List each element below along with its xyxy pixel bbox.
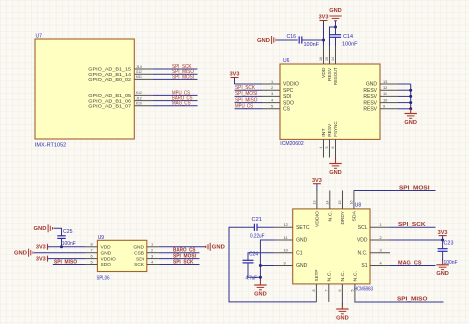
svg-text:SCK: SCK — [134, 262, 145, 268]
pin 1 of U8 right — [370, 226, 390, 228]
baro U9 body — [97, 240, 146, 271]
svg-text:6: 6 — [331, 147, 335, 149]
svg-text:SETC: SETC — [296, 225, 310, 231]
wire U8 SCL to SPI_SCK — [390, 226, 436, 228]
junction C23/VDD/3V3 — [441, 239, 444, 242]
svg-text:3: 3 — [380, 248, 382, 253]
svg-text:RESV: RESV — [363, 88, 377, 94]
wire U8 GND pin9 — [260, 265, 274, 267]
svg-text:RESV: RESV — [363, 94, 377, 100]
svg-text:GND: GND — [336, 315, 349, 321]
pin 4 of U6 — [262, 102, 280, 104]
capacitor C21 — [253, 224, 255, 231]
svg-text:2: 2 — [380, 235, 382, 240]
svg-text:1: 1 — [380, 222, 382, 227]
wire row 4 left of U6 — [235, 102, 263, 104]
ground GND below U8 pin6 — [341, 302, 343, 305]
svg-text:SPI_SCK: SPI_SCK — [398, 222, 426, 228]
wire U8 VDD to 3V3/C23 — [390, 239, 443, 241]
svg-text:C16: C16 — [287, 34, 297, 40]
pin 12 of U8 left — [275, 226, 293, 228]
pin 3 of U8 right — [370, 252, 390, 254]
pin 5 RESV bottom of U6 — [329, 139, 331, 157]
wire net SPI_MISO from U7 — [152, 73, 197, 75]
wire net MAG_CS from U7 — [152, 105, 197, 107]
wire U8 S1 to MAG_CS — [390, 265, 436, 267]
svg-text:100nF: 100nF — [62, 241, 76, 247]
ground GND below C24 bus — [259, 281, 261, 285]
wire GND stem down — [335, 21, 337, 27]
svg-text:6: 6 — [91, 253, 93, 258]
svg-text:GND: GND — [296, 263, 308, 269]
svg-text:DRDY: DRDY — [340, 210, 345, 224]
wire row 3 left of U6 — [235, 95, 263, 97]
ground GND below RESV bus — [410, 109, 412, 114]
wire 3V3 to U9 VDD — [48, 246, 86, 248]
svg-text:3: 3 — [271, 91, 273, 96]
svg-text:3V3: 3V3 — [230, 72, 240, 78]
wire C16 to 3V3/VDD line — [302, 39, 324, 41]
svg-text:3V3: 3V3 — [36, 245, 46, 251]
svg-text:SPI_MISO: SPI_MISO — [397, 297, 428, 303]
pin 5 of U6 — [262, 108, 280, 110]
junction dots RESV bus — [409, 89, 412, 92]
wire 3V3 to VDD pin16 — [323, 21, 325, 47]
svg-text:MAG_CS: MAG_CS — [398, 260, 422, 266]
pin 2 of U8 right — [370, 239, 390, 241]
junction RESV/C14/GND — [334, 26, 337, 29]
wire net BARO_CS from U7 — [152, 100, 197, 102]
wire C14 to REGOUT pin14 — [335, 37, 337, 46]
svg-text:1: 1 — [151, 242, 153, 247]
svg-text:5: 5 — [350, 290, 354, 292]
wire U8 pin5 to SPI_MISO — [355, 301, 444, 303]
wire VDD node to C23 — [442, 240, 444, 249]
svg-text:GND: GND — [254, 291, 267, 297]
svg-text:ICM20602: ICM20602 — [280, 141, 304, 147]
pin 6 of U9 left — [85, 258, 97, 260]
svg-text:5: 5 — [325, 147, 329, 149]
svg-text:GND: GND — [366, 82, 378, 88]
pin 10 of U6 right — [380, 102, 398, 104]
svg-text:11: 11 — [383, 91, 387, 96]
svg-text:12: 12 — [284, 222, 288, 227]
pin 4 of U8 right — [370, 265, 390, 267]
svg-text:GND: GND — [329, 8, 342, 14]
svg-text:RESV: RESV — [363, 107, 377, 113]
gnd port GND at U9 pin7 — [32, 252, 34, 254]
power port 3V3 at U9 VDD — [47, 244, 49, 250]
svg-text:GND: GND — [436, 271, 449, 277]
svg-text:12: 12 — [383, 85, 387, 90]
svg-text:VDD: VDD — [321, 67, 326, 78]
svg-text:C24: C24 — [249, 251, 258, 257]
pin 9 of U8 left — [275, 265, 293, 267]
wire 3V3 to VDDIO — [234, 78, 236, 85]
wire net MPU_CS from U7 — [152, 94, 197, 96]
svg-text:SPI_MOSI: SPI_MOSI — [399, 185, 430, 191]
junction C16 wire to VDD line — [322, 39, 325, 42]
svg-text:2: 2 — [271, 85, 273, 90]
svg-text:GPIO_AD_B1_06: GPIO_AD_B1_06 — [88, 98, 131, 104]
svg-text:SPI_MOSI: SPI_MOSI — [172, 74, 194, 80]
svg-text:IMX-RT1052: IMX-RT1052 — [35, 143, 67, 149]
wire row pin 13 right of U6 — [398, 83, 411, 85]
ground GND below FSYNC — [335, 158, 337, 164]
junction C24 to GND bus — [259, 276, 262, 279]
pin 4 INT of U6 — [323, 139, 325, 157]
pin 14 N.C. of U8 top — [329, 191, 331, 209]
svg-text:SPI_SCK: SPI_SCK — [235, 85, 255, 91]
svg-text:GPIO_AD_B1_05: GPIO_AD_B1_05 — [88, 93, 131, 99]
wire U9 SDI — [159, 258, 200, 260]
wire U8 GND pin11 down — [260, 240, 274, 281]
pin 16 SDA of U8 top — [353, 191, 355, 209]
svg-text:11: 11 — [284, 235, 288, 240]
imu U6 body — [280, 64, 380, 139]
pin 3 of U9 right — [147, 258, 159, 260]
svg-text:RESV: RESV — [327, 67, 332, 81]
power port 3V3 at U9 VDDIO — [47, 256, 49, 262]
svg-text:15: 15 — [325, 57, 329, 61]
svg-text:1: 1 — [271, 79, 273, 84]
wire C21 to SETC — [257, 226, 275, 228]
pin 8 SETP of U8 bottom — [315, 284, 317, 302]
pin 1 of U6 — [262, 83, 280, 85]
svg-text:U6: U6 — [283, 58, 290, 64]
svg-text:N.C.: N.C. — [340, 271, 345, 282]
svg-text:C23: C23 — [444, 241, 454, 247]
svg-text:N.C.: N.C. — [326, 271, 331, 282]
pin 7 of U9 left — [85, 252, 97, 254]
svg-text:4: 4 — [319, 147, 323, 149]
svg-text:3V3: 3V3 — [438, 230, 448, 236]
svg-text:U9: U9 — [98, 235, 105, 241]
svg-text:GPIO_AD_B1_14: GPIO_AD_B1_14 — [88, 72, 131, 78]
wire 3V3 bar to VDD wire — [442, 236, 444, 240]
wire C25 to VDD wire — [61, 238, 63, 246]
svg-text:16: 16 — [349, 201, 353, 205]
junction GND pin9 — [259, 264, 262, 267]
svg-text:9: 9 — [383, 104, 385, 109]
pin 5 N.C. of U8 bottom — [354, 284, 356, 302]
svg-text:GND: GND — [296, 238, 308, 244]
pin 12 of U6 right — [380, 89, 398, 91]
svg-text:N.C.: N.C. — [327, 211, 332, 222]
wire row pin 11 right of U6 — [398, 95, 411, 97]
svg-text:GND: GND — [14, 251, 27, 257]
svg-text:C1: C1 — [296, 251, 303, 257]
svg-text:U7: U7 — [36, 34, 43, 40]
wire row 1 left of U6 — [235, 83, 263, 85]
svg-text:RESV: RESV — [363, 100, 377, 106]
svg-text:SDI: SDI — [283, 94, 291, 100]
wire U9 CSB — [159, 252, 200, 254]
svg-text:SDO: SDO — [283, 100, 294, 106]
svg-text:N.C.: N.C. — [358, 251, 368, 257]
svg-text:K10: K10 — [136, 101, 142, 106]
svg-text:GPIO_AD_B1_07: GPIO_AD_B1_07 — [88, 104, 131, 110]
wire C21 around to SETP — [229, 227, 316, 302]
svg-text:GND: GND — [212, 245, 225, 251]
capacitor C16 — [298, 36, 300, 43]
svg-text:SPL06: SPL06 — [97, 275, 110, 281]
wire U9 GND pin1 to port — [159, 246, 206, 248]
capacitor C14 — [330, 34, 341, 36]
svg-text:CSB: CSB — [134, 250, 144, 256]
svg-text:SDO: SDO — [101, 262, 112, 268]
wire RESV pin15 up to GND node — [330, 27, 336, 46]
pin 6 FSYNC of U6 — [335, 139, 337, 157]
svg-text:5: 5 — [91, 259, 93, 264]
svg-text:16: 16 — [319, 57, 323, 61]
svg-text:GND: GND — [257, 38, 270, 44]
svg-text:VDDIO: VDDIO — [283, 82, 299, 88]
svg-text:HCM5983: HCM5983 — [354, 286, 373, 292]
svg-text:VDD: VDD — [357, 238, 368, 244]
svg-text:SPI_MISO: SPI_MISO — [235, 97, 258, 103]
pin 16 VDD of U6 — [323, 46, 325, 64]
svg-text:15: 15 — [338, 201, 342, 205]
pin 15 RESV of U6 — [329, 46, 331, 64]
mcu U7 body — [35, 39, 134, 139]
wire 3V3 to U8 VDDIO — [316, 184, 318, 191]
svg-text:100nF: 100nF — [304, 42, 320, 48]
pin 10 of U8 left — [275, 252, 293, 254]
svg-text:3V3: 3V3 — [36, 256, 46, 262]
svg-text:MAG_CS: MAG_CS — [172, 101, 191, 107]
svg-text:GND: GND — [34, 226, 47, 232]
svg-text:14: 14 — [325, 201, 329, 205]
svg-text:3V3: 3V3 — [319, 15, 329, 21]
svg-text:C21: C21 — [252, 217, 263, 223]
wire RESV bus vertical — [410, 84, 412, 109]
wire net SPI_SCK from U7 — [152, 68, 197, 70]
pin 11 of U8 left — [275, 239, 293, 241]
svg-text:9: 9 — [284, 260, 286, 265]
capacitor C25 — [57, 235, 65, 237]
wire U9 SCK — [159, 264, 200, 266]
svg-text:MPU_CS: MPU_CS — [235, 104, 253, 110]
svg-text:0.22uF: 0.22uF — [250, 233, 265, 239]
svg-text:8: 8 — [312, 290, 316, 292]
svg-text:SDI: SDI — [136, 256, 144, 262]
svg-text:N.C.: N.C. — [353, 271, 358, 282]
pin 8 of U9 left — [85, 246, 97, 248]
wire GND port to C25 — [54, 228, 62, 236]
svg-text:GND: GND — [101, 250, 112, 256]
svg-text:13: 13 — [312, 201, 316, 205]
mag U8 body — [293, 209, 370, 284]
svg-text:5: 5 — [271, 104, 273, 109]
svg-text:FSYNC: FSYNC — [333, 121, 338, 137]
junction C25 — [60, 245, 63, 248]
svg-text:C25: C25 — [63, 229, 73, 235]
pin 1 of U9 right — [147, 246, 159, 248]
wire row pin 10 right of U6 — [398, 102, 411, 104]
svg-text:REGOUT: REGOUT — [333, 67, 338, 85]
wire GND port to C16 — [277, 39, 298, 41]
pin 13 of U6 right — [380, 83, 398, 85]
pin 6 N.C. of U8 bottom — [341, 284, 343, 302]
pin 2 of U9 right — [147, 252, 159, 254]
svg-text:13: 13 — [383, 79, 387, 84]
wire C24 bottom to GND bus — [248, 263, 260, 277]
svg-text:GPIO_AD_B1_15: GPIO_AD_B1_15 — [88, 67, 131, 73]
pin 7 N.C. of U8 bottom — [328, 284, 330, 302]
svg-text:S1: S1 — [361, 263, 367, 269]
wire GND node to C14 — [335, 27, 337, 35]
wire GND port to U9 GND — [34, 252, 85, 254]
svg-text:INT: INT — [321, 128, 326, 137]
svg-text:M11: M11 — [136, 74, 142, 79]
svg-text:RESV: RESV — [327, 123, 332, 137]
svg-text:7: 7 — [324, 290, 328, 292]
svg-text:8: 8 — [91, 242, 93, 247]
svg-text:SPI_SCK: SPI_SCK — [173, 259, 194, 265]
svg-text:6: 6 — [338, 290, 342, 292]
wire row 2 left of U6 — [235, 89, 263, 91]
svg-text:4.7uF: 4.7uF — [246, 275, 258, 281]
wire row pin 9 right of U6 — [398, 108, 411, 110]
svg-text:100nF: 100nF — [342, 41, 358, 47]
ground GND below C23 — [442, 261, 444, 265]
svg-text:CS: CS — [283, 107, 291, 113]
pin 15 DRDY of U8 top — [342, 191, 344, 209]
gnd port GND right of U9 — [205, 246, 207, 248]
svg-text:3: 3 — [151, 253, 153, 258]
pin 5 of U9 left — [85, 264, 97, 266]
gnd port GND above C25 — [52, 227, 54, 229]
wire row pin 12 right of U6 — [398, 89, 411, 91]
svg-text:SETP: SETP — [314, 270, 319, 282]
svg-text:SDA: SDA — [352, 210, 357, 221]
capacitor C24 — [243, 259, 254, 261]
svg-text:GPIO_AD_B0_02: GPIO_AD_B0_02 — [88, 77, 131, 83]
svg-text:SPI_MOSI: SPI_MOSI — [235, 91, 258, 97]
svg-text:7: 7 — [91, 248, 93, 253]
wire 3V3 to U9 VDDIO — [48, 258, 86, 260]
wire net SPI_MOSI from U7 — [152, 78, 197, 80]
pin 13 VDDIO of U8 top — [316, 191, 318, 209]
svg-text:SPI_MISO: SPI_MISO — [54, 259, 77, 265]
wire row 5 left of U6 — [235, 108, 263, 110]
wire SPI_MISO to U9 SDO — [53, 264, 86, 266]
wire U8 SDA to SPI_MOSI — [354, 190, 436, 192]
pin 4 of U9 right — [147, 264, 159, 266]
gnd port GND at C16 — [275, 39, 277, 41]
pin 9 of U6 right — [380, 108, 398, 110]
pin 3 of U6 — [262, 95, 280, 97]
svg-text:GND: GND — [329, 170, 342, 176]
wire U8 C1 to C24 — [248, 253, 275, 260]
svg-text:U8: U8 — [355, 203, 362, 209]
svg-text:VDD: VDD — [101, 245, 112, 251]
svg-text:VDDIO: VDDIO — [315, 211, 320, 227]
svg-text:SCL: SCL — [358, 225, 368, 231]
capacitor C23 — [438, 248, 448, 250]
svg-text:C14: C14 — [343, 34, 353, 40]
svg-text:GND: GND — [133, 245, 144, 251]
pin 14 REGOUT of U6 — [335, 46, 337, 64]
svg-text:2: 2 — [151, 248, 153, 253]
svg-text:3V3: 3V3 — [312, 178, 322, 184]
pin 11 of U6 right — [380, 95, 398, 97]
pin 2 of U6 — [262, 89, 280, 91]
svg-text:VDDIO: VDDIO — [101, 256, 116, 262]
svg-text:14: 14 — [331, 57, 335, 61]
wire C23 to GND — [442, 251, 444, 261]
svg-text:GND: GND — [404, 120, 417, 126]
svg-text:SPC: SPC — [283, 88, 294, 94]
